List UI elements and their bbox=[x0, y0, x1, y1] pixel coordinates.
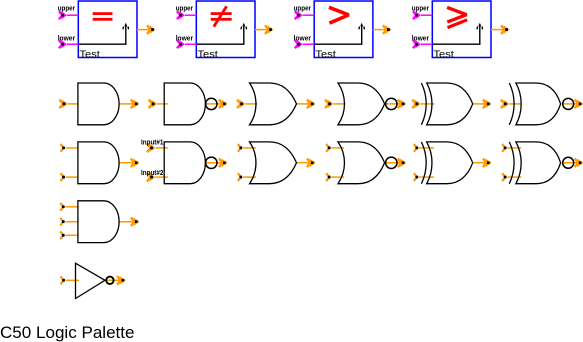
wire input1 (XNOR G6) bbox=[501, 100, 522, 109]
label lower (U2) bbox=[176, 36, 194, 43]
wire output (AND G13) bbox=[119, 217, 139, 226]
label lower (U4) bbox=[412, 36, 430, 43]
bubble (NAND G8) bbox=[206, 157, 217, 168]
XNOR gate G6 (1-input) bbox=[509, 83, 560, 125]
XNOR gate G12 (2-input) bbox=[509, 142, 560, 184]
symbol neq (U2) bbox=[211, 6, 232, 26]
wire input1 (XOR G5) bbox=[412, 100, 434, 109]
symbol ge (U4) bbox=[447, 7, 467, 27]
svg-text:C50 Logic Palette: C50 Logic Palette bbox=[0, 324, 135, 342]
wire output (U3) bbox=[373, 25, 392, 34]
label Test (U3) bbox=[315, 50, 336, 61]
wire input1 (AND G13) bbox=[60, 203, 78, 211]
wire upper input (U4) bbox=[413, 11, 432, 20]
wire input2 (XNOR G12) bbox=[502, 173, 521, 181]
wire lower input (U4) bbox=[413, 40, 432, 49]
wire input1 (OR G3) bbox=[237, 100, 258, 109]
wire upper input (U3) bbox=[295, 11, 314, 20]
comparator U4 (Greater Or Equal? Test block) bbox=[432, 1, 491, 58]
wire lower input (U2) bbox=[177, 40, 196, 49]
title label: C50 Logic Palette bbox=[0, 324, 135, 342]
OR gate G3 (1-input) bbox=[250, 83, 297, 125]
svg-text:Test: Test bbox=[80, 50, 101, 61]
svg-text:Test: Test bbox=[315, 50, 336, 61]
wire input2 (OR G9) bbox=[238, 173, 256, 181]
label upper (U4) bbox=[412, 6, 430, 13]
wire input1 (NAND G2) bbox=[149, 100, 168, 109]
wire output (NOT G14) bbox=[105, 276, 126, 285]
wire input1 (AND G1) bbox=[59, 100, 78, 109]
wire output (U2) bbox=[255, 25, 274, 34]
AND gate G7 (2-input) bbox=[78, 142, 119, 184]
label Test (U2) bbox=[198, 50, 219, 61]
wire input1 (OR G9) bbox=[238, 144, 256, 152]
NOR gate G4 (1-input) bbox=[338, 83, 385, 125]
label Test (U1) bbox=[80, 50, 101, 61]
wire input2 (NAND G8) bbox=[147, 173, 168, 182]
label Input#1 (NAND G8) bbox=[141, 140, 163, 147]
AND gate G13 (3-input) bbox=[78, 201, 119, 243]
bubble (NAND G2) bbox=[206, 98, 217, 109]
wire input3 (AND G13) bbox=[60, 231, 78, 239]
wire output (NOR G10) bbox=[385, 158, 407, 167]
comparator U3 (Greater? Test block) bbox=[314, 1, 373, 58]
wire output (NAND G8) bbox=[205, 158, 228, 167]
comparator U2 (Not Equal? Test block) bbox=[196, 1, 255, 58]
wire output (OR G3) bbox=[297, 100, 316, 109]
result arrow (U4) bbox=[432, 23, 482, 44]
OR gate G9 (2-input) bbox=[250, 142, 297, 184]
wire output (AND G1) bbox=[119, 100, 139, 109]
wire input1 (XNOR G12) bbox=[502, 144, 521, 152]
wire input1 (NOR G4) bbox=[325, 100, 346, 109]
wire input1 (AND G7) bbox=[61, 144, 78, 152]
wire output (XOR G5) bbox=[473, 100, 492, 109]
NAND gate G2 (1-input) bbox=[164, 83, 205, 125]
bubble (NOR G4) bbox=[386, 98, 397, 109]
wire output (U1) bbox=[137, 25, 156, 34]
label Input#2 (NAND G8) bbox=[141, 170, 163, 177]
wire input2 (AND G7) bbox=[61, 173, 78, 181]
wire output (U4) bbox=[491, 25, 510, 34]
wire lower input (U3) bbox=[295, 40, 314, 49]
svg-text:Input#2: Input#2 bbox=[141, 170, 163, 177]
wire output (AND G7) bbox=[119, 158, 139, 167]
wire output (NOR G4) bbox=[385, 100, 407, 109]
label upper (U1) bbox=[58, 6, 76, 13]
svg-text:Test: Test bbox=[198, 50, 219, 61]
label upper (U2) bbox=[176, 6, 194, 13]
wire input2 (NOR G10) bbox=[326, 173, 344, 181]
label lower (U1) bbox=[58, 36, 76, 43]
bubble (XNOR G6) bbox=[563, 98, 574, 109]
svg-text:Test: Test bbox=[434, 50, 455, 61]
wire output (XOR G11) bbox=[473, 158, 492, 167]
wire output (XNOR G12) bbox=[562, 158, 583, 167]
wire lower input (U1) bbox=[59, 40, 78, 49]
label lower (U3) bbox=[294, 36, 312, 43]
wire output (NAND G2) bbox=[205, 100, 228, 109]
result arrow (U3) bbox=[314, 23, 364, 44]
wire input1 (XOR G11) bbox=[414, 144, 434, 152]
NAND gate G8 (2-input) bbox=[164, 142, 205, 184]
wire input1 (NAND G8) bbox=[147, 144, 168, 153]
bubble (NOR G10) bbox=[386, 157, 397, 168]
result arrow (U2) bbox=[196, 23, 246, 44]
NOR gate G10 (2-input) bbox=[338, 142, 385, 184]
svg-text:Input#1: Input#1 bbox=[141, 140, 163, 147]
symbol gt (U3) bbox=[329, 7, 349, 23]
bubble (NOT G14) bbox=[106, 277, 113, 284]
wire output (XNOR G6) bbox=[562, 100, 583, 109]
NOT gate G14 (inverter) bbox=[76, 263, 106, 298]
wire input1 (NOR G10) bbox=[326, 144, 344, 152]
XOR gate G11 (2-input) bbox=[421, 142, 472, 184]
label upper (U3) bbox=[294, 6, 312, 13]
wire upper input (U2) bbox=[177, 11, 196, 20]
wire upper input (U1) bbox=[59, 11, 78, 20]
label Test (U4) bbox=[434, 50, 455, 61]
wire input2 (AND G13) bbox=[60, 218, 78, 226]
XOR gate G5 (1-input) bbox=[421, 83, 472, 125]
symbol eq (U1) bbox=[93, 12, 113, 20]
result arrow (U1) bbox=[78, 23, 128, 44]
comparator U1 (Equal? Test block) bbox=[78, 1, 137, 58]
bubble (XNOR G12) bbox=[563, 157, 574, 168]
wire input2 (XOR G11) bbox=[414, 173, 434, 181]
wire output (OR G9) bbox=[297, 158, 316, 167]
AND gate G1 (1-input) bbox=[78, 83, 119, 125]
wire input (NOT G14) bbox=[61, 276, 79, 284]
